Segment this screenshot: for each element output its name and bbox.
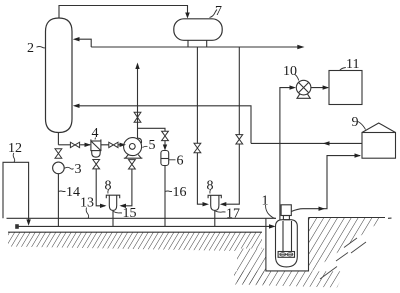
arrow into vessel 8L left — [100, 204, 107, 208]
label 14 leader — [58, 190, 65, 193]
svg-text:8: 8 — [207, 179, 214, 194]
drum boot — [188, 40, 207, 47]
svg-text:13: 13 — [80, 196, 94, 211]
svg-text:9: 9 — [352, 115, 359, 130]
gate valve V4a bowtie — [70, 142, 79, 147]
arrow distillate out — [297, 45, 304, 50]
column 2 vessel — [46, 18, 73, 133]
label 16 leader — [165, 190, 172, 193]
reflux return pipe — [75, 39, 91, 47]
svg-text:5: 5 — [149, 138, 156, 153]
header line 13 upper — [7, 217, 277, 219]
valve V7a on boot drop — [194, 143, 201, 152]
arrow line A into column — [73, 104, 80, 108]
pump discharge riser — [137, 67, 139, 139]
label 11 leader — [340, 68, 346, 71]
box 11 — [329, 71, 362, 105]
svg-text:2: 2 — [27, 41, 34, 56]
well gas riser to compressor — [280, 88, 294, 220]
branch to filter — [58, 144, 70, 146]
arrow reflux into column — [73, 37, 80, 41]
svg-text:16: 16 — [173, 185, 187, 200]
pipe pump valve to vessel 8L — [121, 169, 132, 206]
valve V5a on riser — [134, 112, 141, 122]
arrow on tank 9 outlet — [323, 141, 330, 145]
agitator draft tube — [283, 221, 292, 252]
branch to strainer 6 — [138, 128, 166, 131]
label 5 leader — [143, 146, 148, 147]
label 2 leader — [37, 47, 46, 48]
svg-text:12: 12 — [8, 141, 22, 156]
svg-text:10: 10 — [283, 64, 297, 79]
arrow into vessel 1 — [269, 224, 276, 228]
tank 9 — [362, 123, 396, 158]
ground hatch around pit and right block — [234, 218, 385, 288]
impeller box — [278, 252, 294, 258]
arrow into 6 — [163, 145, 167, 151]
arrow into vessel 8L right — [119, 204, 126, 208]
vessel 8R stem line 17 — [214, 210, 216, 226]
arrow into vessel 8R left — [203, 202, 210, 206]
arrow into box 11 — [323, 85, 330, 89]
label 1 leader — [266, 205, 276, 219]
motor M on vessel 1 — [281, 205, 291, 216]
drum 7 reflux accumulator — [174, 19, 222, 41]
arrow on vapor line — [319, 207, 326, 211]
valve V8La below filter — [93, 160, 100, 169]
label 12 leader — [13, 153, 15, 162]
valve V3a below column — [55, 149, 62, 158]
svg-text:17: 17 — [226, 207, 240, 222]
ground hatch left band — [8, 232, 262, 251]
arrow into compressor 10 — [290, 85, 297, 89]
pipe column top to drum — [59, 6, 188, 19]
valve V8Lb below pump — [129, 160, 136, 169]
arrow line 12 onto header — [26, 219, 30, 225]
label 8L leader — [107, 190, 110, 194]
pipe compressor to box 11 — [311, 87, 328, 89]
vessel 8R trap — [208, 195, 221, 210]
arrow into filter 4 — [85, 143, 92, 147]
line 16 down — [164, 166, 166, 227]
svg-text:3: 3 — [75, 162, 82, 177]
label 9 leader — [358, 122, 366, 130]
vapor line motor to tank 9 — [291, 156, 360, 212]
pump circle 3 — [53, 162, 65, 174]
filter 4 body — [91, 139, 101, 157]
valve V9a on product drop — [236, 135, 243, 144]
svg-text:1: 1 — [262, 194, 269, 209]
label 6 leader — [169, 159, 176, 161]
vessel 8L trap — [106, 195, 119, 210]
gate valve V4b bowtie — [109, 142, 118, 147]
line 14 down — [57, 174, 59, 227]
svg-text:14: 14 — [66, 185, 80, 200]
motor neck — [283, 216, 289, 220]
header end cap — [15, 224, 19, 229]
label 3 leader — [65, 167, 74, 169]
label 15 leader — [114, 212, 123, 214]
distillate line y47 — [91, 46, 300, 48]
arrow up vent — [135, 63, 139, 70]
label 17 leader — [216, 210, 226, 213]
compressor 10 — [296, 80, 311, 98]
arrow into vessel 8R right — [220, 202, 227, 206]
ground surface right of pit — [309, 217, 392, 220]
recycle line A to column — [75, 106, 251, 144]
svg-text:6: 6 — [177, 154, 184, 169]
pipe to vessel 8R left — [197, 153, 207, 205]
valve V6a — [162, 131, 169, 140]
arrow into tank 9 — [355, 153, 362, 157]
strainer 6 body — [161, 151, 169, 166]
svg-text:4: 4 — [92, 126, 99, 141]
label 8R leader — [209, 190, 212, 194]
column bottom outlet — [57, 133, 59, 145]
arrow into drum top — [185, 13, 190, 19]
header line lower to well — [17, 225, 273, 227]
pipe valve to pump — [101, 144, 125, 146]
supply line 12 — [3, 162, 29, 222]
pipe valve to 6 — [164, 140, 166, 149]
label 10 leader — [295, 75, 299, 81]
well pit outline — [266, 218, 309, 271]
svg-text:7: 7 — [215, 4, 222, 19]
vessel 8L stem line 15 — [112, 210, 114, 226]
label 13 leader — [86, 208, 88, 219]
svg-text:15: 15 — [123, 206, 137, 221]
pipe to vessel 8R right — [222, 144, 240, 204]
arrow into pump 5 — [120, 143, 127, 147]
svg-text:11: 11 — [346, 57, 359, 72]
boot drop pipe x197.4 — [196, 47, 198, 144]
impeller paddles — [280, 253, 293, 256]
label 7 leader — [210, 10, 218, 18]
tank 9 outlet line to column — [251, 142, 362, 144]
product drop pipe x239.3 — [238, 47, 240, 135]
vessel 1 downhole reactor body — [276, 220, 298, 267]
svg-text:8: 8 — [105, 179, 112, 194]
pipe filter valve to vessel 8L — [96, 169, 105, 206]
pump 5 centrifugal — [124, 138, 143, 159]
label 4 leader — [94, 138, 97, 140]
pipe valve to filter — [80, 144, 90, 146]
